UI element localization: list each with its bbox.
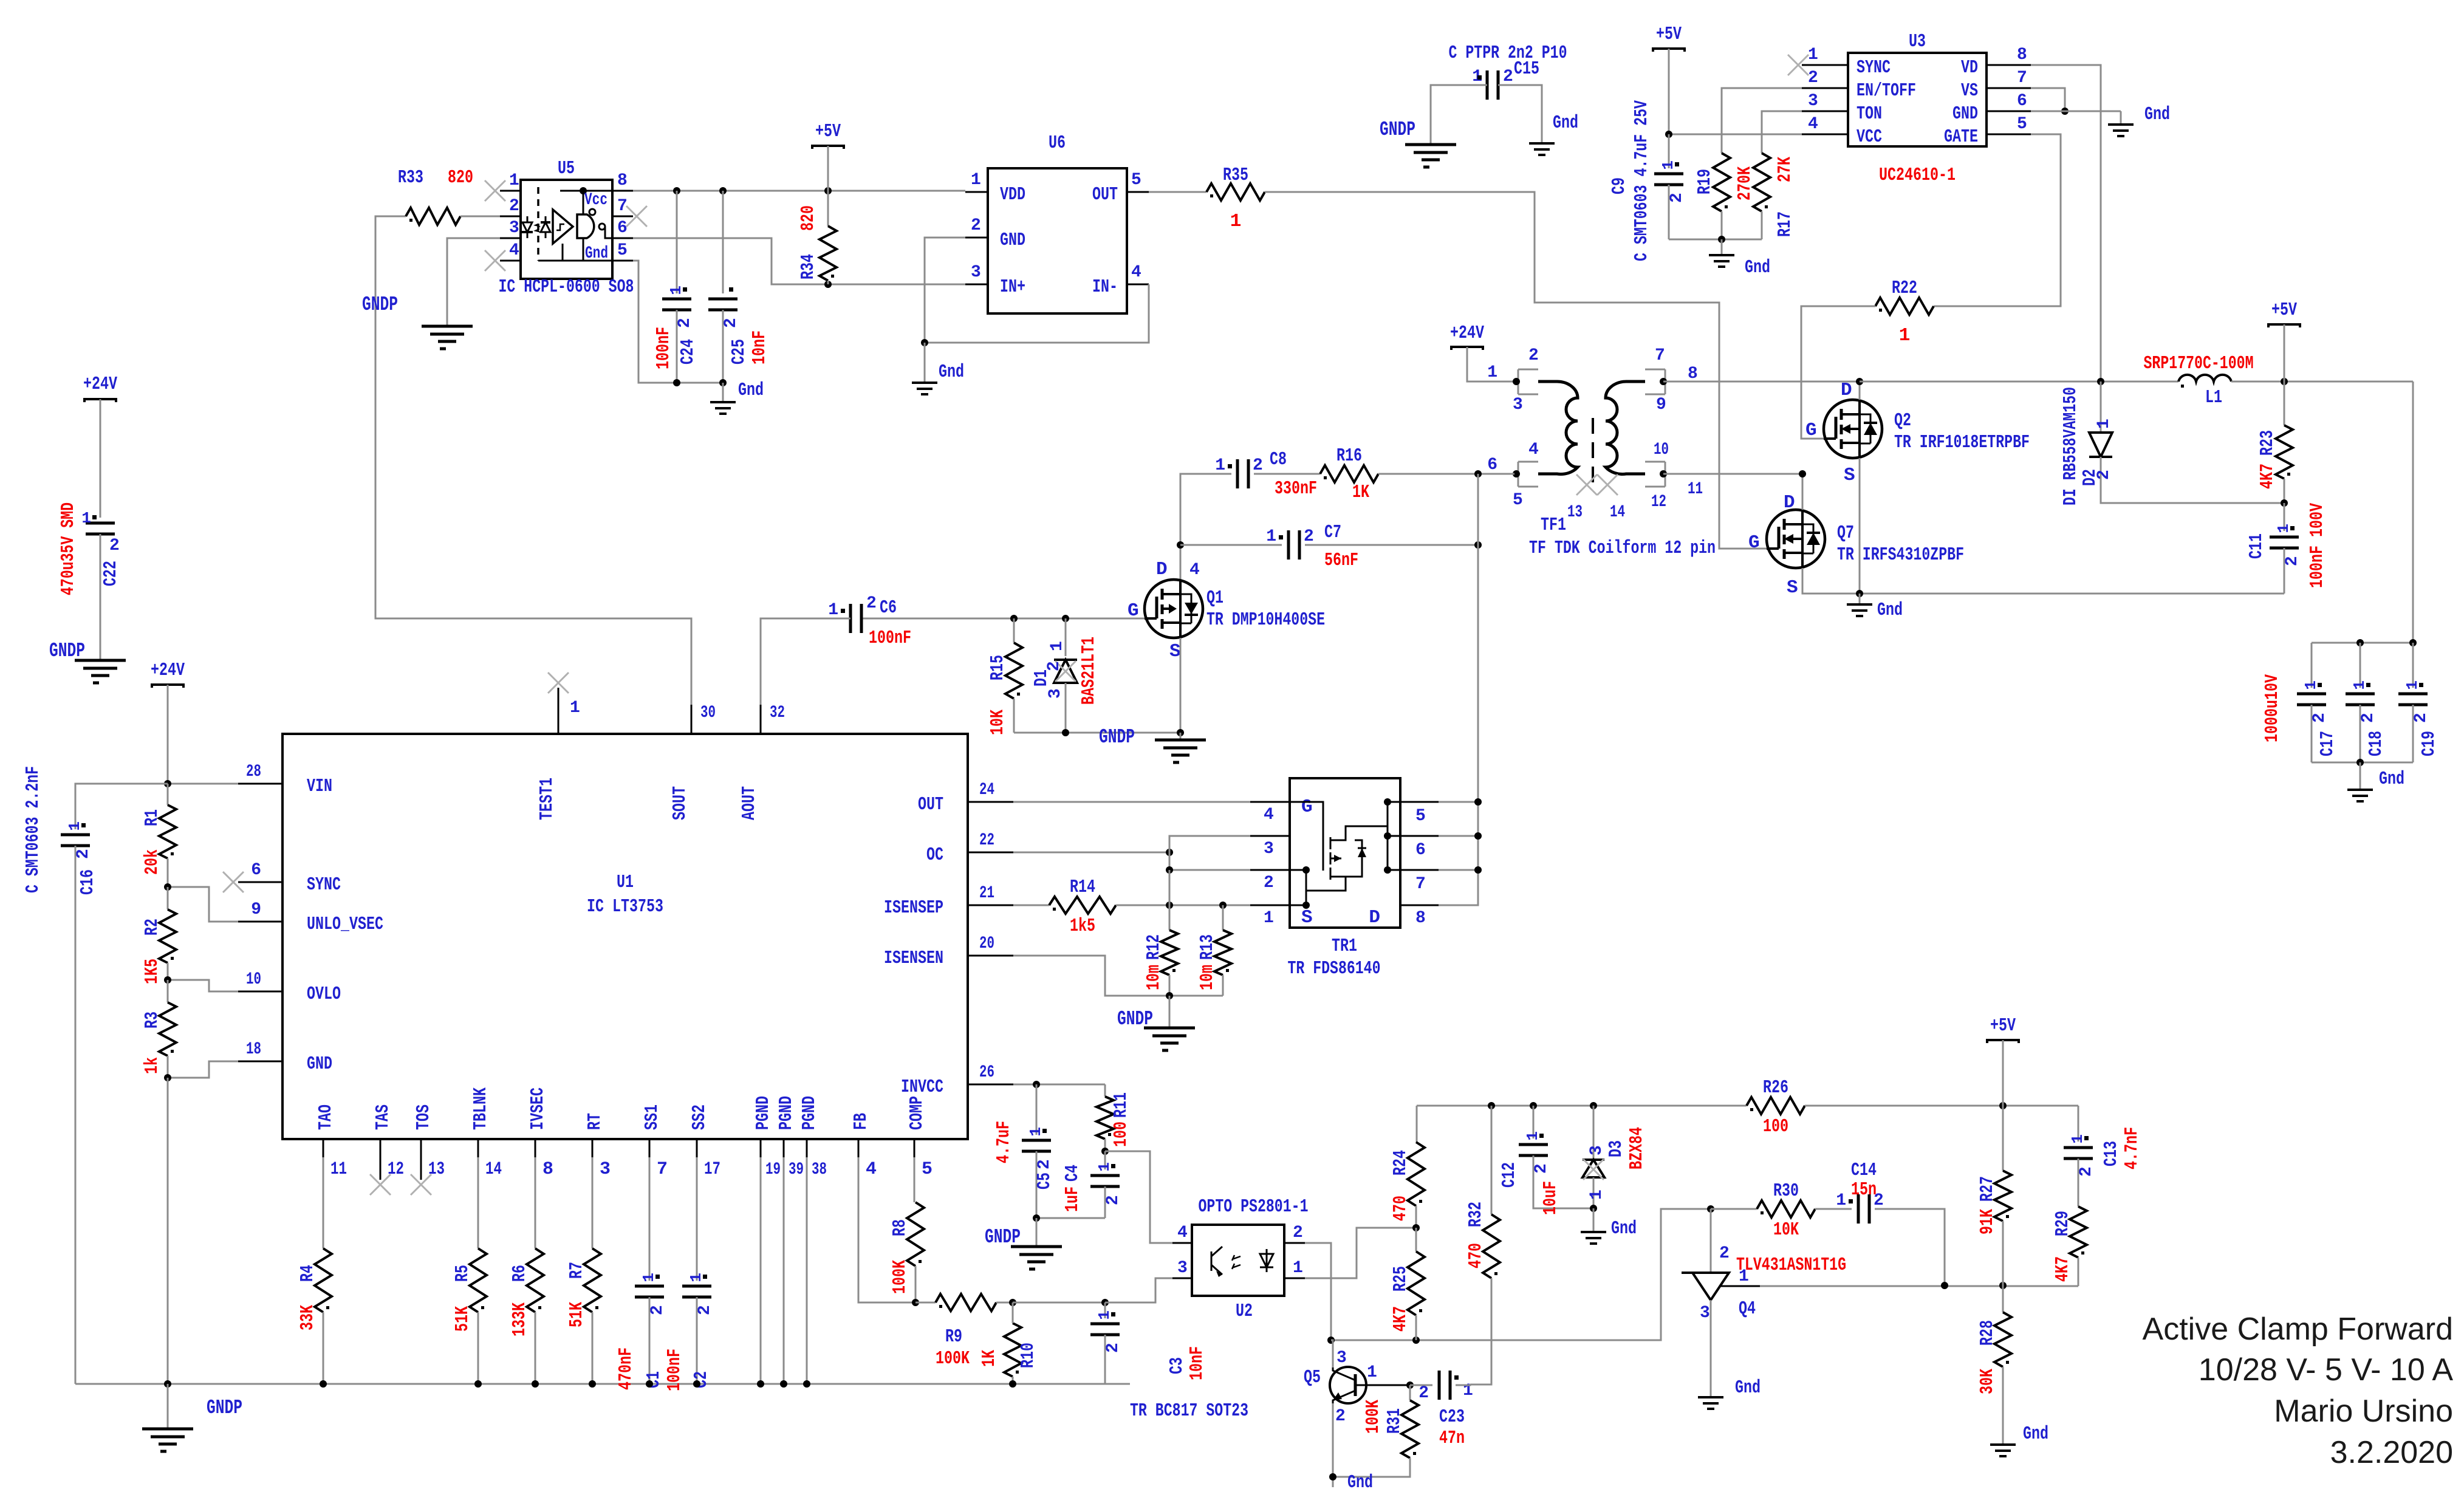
svg-text:1: 1	[2302, 680, 2320, 690]
svg-text:C11: C11	[2246, 533, 2267, 559]
node C7 TR1 vertical	[1474, 541, 1482, 549]
U1 pin SS2 (17)	[696, 1139, 698, 1157]
wire C15 pin1 to GNDP	[1431, 85, 1487, 145]
svg-text:+5V: +5V	[2271, 300, 2297, 321]
svg-text:1: 1	[1487, 363, 1497, 382]
svg-text:7: 7	[1415, 875, 1426, 894]
svg-text:D: D	[1156, 559, 1168, 580]
svg-text:3: 3	[1808, 92, 1818, 111]
svg-text:100nF: 100nF	[869, 628, 911, 649]
svg-text:4: 4	[1264, 806, 1274, 824]
node D3 top	[1590, 1102, 1597, 1109]
svg-text:4: 4	[1528, 440, 1539, 459]
U1 pin TBLNK (14)	[477, 1139, 479, 1157]
wire U6 GND loop to IN-	[925, 238, 1149, 343]
wire TR1 pin5 to node	[1439, 801, 1478, 803]
TR1 pin 5 stub	[1400, 801, 1439, 803]
svg-text:2: 2	[676, 318, 694, 328]
svg-text:OVLO: OVLO	[307, 984, 341, 1005]
svg-text:R10: R10	[1018, 1343, 1039, 1368]
svg-text:2: 2	[971, 216, 981, 235]
svg-text:Q1: Q1	[1206, 587, 1223, 609]
wire Q7 drain	[1802, 474, 1804, 510]
node D1 top	[1062, 615, 1069, 622]
svg-text:1: 1	[1524, 1131, 1542, 1141]
wire to U2 pin3	[1105, 1278, 1172, 1302]
svg-text:C12: C12	[1499, 1162, 1520, 1188]
svg-text:19: 19	[765, 1160, 781, 1179]
svg-text:1: 1	[1230, 211, 1242, 232]
svg-text:U5: U5	[558, 158, 575, 179]
svg-text:4.7uF: 4.7uF	[993, 1121, 1015, 1163]
svg-text:8: 8	[617, 171, 628, 190]
svg-text:PGND: PGND	[799, 1096, 820, 1130]
U5 pin 7 stub	[612, 216, 633, 217]
U3 pin 1 stub	[1802, 64, 1848, 66]
svg-text:32: 32	[770, 703, 785, 722]
svg-text:R27: R27	[1977, 1176, 1998, 1202]
svg-text:R12: R12	[1143, 934, 1165, 960]
transistor Q1 symbol	[1145, 580, 1203, 638]
svg-text:2: 2	[509, 197, 519, 216]
svg-text:R25: R25	[1390, 1266, 1411, 1292]
wire +5V to VCC	[1669, 49, 1802, 134]
svg-text:2: 2	[722, 318, 741, 328]
wire PGND 19 down	[760, 1157, 762, 1384]
svg-text:4: 4	[509, 241, 519, 260]
svg-text:R1: R1	[142, 809, 163, 826]
opto U2 box	[1192, 1225, 1284, 1296]
svg-text:TF TDK Coilform 12 pin: TF TDK Coilform 12 pin	[1529, 538, 1716, 559]
U6 pin 2 stub	[965, 237, 988, 239]
svg-text:COMP: COMP	[906, 1096, 928, 1130]
svg-text:11: 11	[1688, 480, 1703, 499]
svg-text:Gnd: Gnd	[2023, 1423, 2048, 1445]
node fb R28	[1999, 1282, 2007, 1289]
resistor R33	[403, 216, 406, 217]
svg-text:100nF: 100nF	[653, 327, 674, 369]
diode D1	[1065, 618, 1067, 656]
svg-text:+5V: +5V	[1656, 24, 1682, 45]
svg-text:GNDP: GNDP	[985, 1226, 1021, 1248]
node caps bottom	[2356, 759, 2364, 766]
wire R30 node	[1711, 1208, 1757, 1210]
svg-text:10m: 10m	[1143, 965, 1165, 990]
capacitor C19	[2412, 643, 2414, 688]
svg-text:2: 2	[696, 1305, 714, 1315]
resistor R25	[1415, 1228, 1417, 1251]
wire Q4 ref node	[1760, 1285, 2078, 1287]
resistor R15	[1013, 618, 1015, 643]
svg-text:4.7nF: 4.7nF	[2121, 1127, 2143, 1169]
svg-text:2: 2	[2359, 713, 2378, 723]
wire TR1 pin6 to node	[1439, 835, 1478, 837]
resistor R30	[1757, 1200, 1815, 1217]
svg-text:TR IRF1018ETRPBF: TR IRF1018ETRPBF	[1894, 432, 2030, 453]
svg-text:2: 2	[1808, 69, 1818, 87]
node PGND39 bus	[780, 1380, 787, 1388]
U1 pin OVLO	[238, 991, 282, 993]
svg-text:20k: 20k	[142, 849, 163, 875]
power +5V (R26)	[1986, 1040, 2020, 1043]
svg-text:C13: C13	[2101, 1141, 2122, 1166]
svg-text:C14: C14	[1851, 1160, 1877, 1181]
svg-text:GNDP: GNDP	[49, 640, 85, 662]
ground Gnd (U6)	[924, 343, 926, 383]
U1 pin SYNC	[238, 881, 282, 883]
node caps top C19	[2409, 639, 2417, 646]
svg-text:3: 3	[1587, 1145, 1606, 1155]
U1 pin OC	[968, 852, 1013, 854]
resistor R10	[1004, 1323, 1021, 1377]
svg-text:OUT: OUT	[918, 794, 943, 815]
svg-text:7: 7	[2017, 69, 2027, 87]
svg-text:C18: C18	[2366, 731, 2387, 756]
svg-text:C8: C8	[1270, 449, 1287, 470]
svg-text:Gnd: Gnd	[2379, 768, 2404, 790]
resistor R26	[1747, 1097, 1805, 1114]
TR1 pin 7 stub	[1400, 869, 1439, 871]
svg-text:R4: R4	[297, 1265, 318, 1282]
svg-text:GNDP: GNDP	[362, 293, 398, 316]
svg-text:C25: C25	[728, 339, 750, 365]
svg-text:TON: TON	[1857, 103, 1882, 125]
svg-text:47n: 47n	[1439, 1428, 1465, 1449]
svg-text:91K: 91K	[1977, 1209, 1998, 1234]
svg-text:4: 4	[1189, 561, 1200, 580]
svg-text:1: 1	[2350, 680, 2369, 690]
svg-text:C7: C7	[1324, 522, 1341, 543]
svg-text:TR BC817 SOT23: TR BC817 SOT23	[1130, 1400, 1248, 1422]
svg-text:1: 1	[509, 171, 519, 190]
svg-text:30: 30	[700, 703, 716, 722]
U5 pin 3 stub	[500, 238, 521, 239]
U2 pin 1 stub	[1284, 1278, 1305, 1279]
capacitor C2	[682, 1285, 711, 1288]
resistor R16	[1320, 465, 1378, 482]
svg-text:G: G	[1301, 796, 1313, 818]
resistor R4	[315, 1248, 332, 1312]
svg-text:U1: U1	[617, 872, 634, 893]
TF1 primary winding	[1538, 382, 1578, 474]
svg-text:U6: U6	[1049, 132, 1066, 154]
TR1 pin 1 stub	[1250, 905, 1290, 906]
wire +5V to R34	[827, 146, 829, 226]
svg-text:5: 5	[922, 1159, 933, 1180]
node +5V output	[2281, 378, 2288, 385]
ground GNDP (C15)	[1405, 145, 1456, 167]
svg-text:12: 12	[1651, 493, 1666, 512]
node C1 bus	[646, 1380, 653, 1388]
svg-text:U2: U2	[1236, 1301, 1253, 1322]
svg-text:SRP1770C-100M: SRP1770C-100M	[2144, 353, 2254, 374]
svg-text:R8: R8	[889, 1219, 911, 1236]
wire R22 to Q2 gate	[1801, 306, 1865, 439]
svg-text:17: 17	[704, 1159, 720, 1180]
svg-text:R28: R28	[1977, 1320, 1998, 1346]
svg-text:C15: C15	[1514, 58, 1539, 80]
node R32 top	[1488, 1102, 1495, 1109]
transistor Q5	[1330, 1367, 1366, 1403]
wire SS1 to C1	[649, 1157, 651, 1281]
svg-text:6: 6	[1415, 841, 1426, 860]
wire C5 C4 gnd rail	[1036, 1217, 1105, 1219]
svg-text:C6: C6	[880, 597, 897, 618]
svg-text:D: D	[1841, 380, 1852, 401]
capacitor C14	[1857, 1194, 1860, 1224]
node C5 gnd	[1033, 1214, 1040, 1222]
wire U5 pin3 to GNDP	[447, 238, 500, 326]
controller U3 box	[1848, 53, 1987, 146]
svg-text:14: 14	[1610, 503, 1625, 522]
TF1 secondary winding	[1606, 382, 1645, 474]
svg-text:GND: GND	[307, 1053, 332, 1075]
node R23 bottom	[2281, 499, 2288, 507]
svg-text:R16: R16	[1336, 445, 1362, 467]
wire Q2 source	[1859, 458, 1861, 594]
node U6 gnd	[921, 339, 928, 346]
shunt ref Q4	[1682, 1272, 1729, 1274]
svg-text:7: 7	[617, 197, 628, 216]
svg-text:+24V: +24V	[151, 660, 185, 681]
wire INVCC to R11	[1013, 1084, 1105, 1086]
capacitor C12	[1533, 1106, 1535, 1138]
svg-text:10K: 10K	[1773, 1219, 1799, 1241]
svg-text:TR1: TR1	[1332, 936, 1357, 957]
U3 pin 8 stub	[1987, 64, 2031, 66]
svg-text:1: 1	[1293, 1259, 1303, 1278]
wire U5 pin6 to U6 IN+	[633, 238, 965, 284]
wire +24V to TF1 pin1	[1467, 347, 1514, 382]
capacitor C24	[676, 191, 678, 293]
resistor R8	[907, 1202, 924, 1266]
svg-text:TBLNK: TBLNK	[470, 1087, 491, 1130]
U1 pin RT (3)	[592, 1139, 594, 1157]
svg-text:R11: R11	[1111, 1092, 1132, 1118]
svg-text:9: 9	[1656, 395, 1666, 414]
node R1 top	[164, 780, 171, 787]
svg-text:SS2: SS2	[689, 1104, 710, 1130]
U1 pin FB (4)	[858, 1139, 860, 1157]
capacitor C22	[86, 522, 115, 525]
svg-text:3: 3	[1700, 1304, 1710, 1323]
svg-text:Q4: Q4	[1739, 1298, 1756, 1320]
svg-text:20: 20	[979, 934, 994, 953]
node R6 bus	[532, 1380, 539, 1388]
svg-text:1: 1	[1659, 160, 1677, 170]
U1 pin PGND (38)	[806, 1139, 808, 1157]
svg-text:OPTO PS2801-1: OPTO PS2801-1	[1199, 1196, 1309, 1217]
svg-text:39: 39	[789, 1160, 804, 1179]
svg-text:5: 5	[1131, 171, 1141, 190]
ground GNDP (bus)	[167, 1384, 169, 1429]
svg-text:1: 1	[1808, 46, 1818, 64]
TR1 internal source chain	[1290, 870, 1306, 905]
svg-text:R3: R3	[142, 1011, 163, 1029]
svg-text:3: 3	[1264, 840, 1274, 858]
svg-text:8: 8	[2017, 46, 2027, 64]
U6 pin 4 stub	[1127, 284, 1149, 286]
node R34 top	[824, 187, 832, 194]
svg-text:U3: U3	[1909, 31, 1926, 52]
svg-text:2: 2	[1335, 1407, 1346, 1426]
power +5V (R34)	[811, 146, 845, 149]
opto U5 box	[521, 180, 612, 279]
svg-text:1: 1	[971, 171, 981, 190]
svg-text:4K7: 4K7	[2257, 464, 2278, 489]
svg-text:OUT: OUT	[1092, 184, 1118, 205]
svg-text:R35: R35	[1223, 165, 1248, 186]
svg-text:1: 1	[2095, 419, 2113, 429]
U2 pin 4 stub	[1172, 1242, 1192, 1244]
ground Gnd (Q4)	[1698, 1397, 1723, 1409]
wire R10 node right	[1013, 1302, 1105, 1304]
svg-text:Vcc: Vcc	[584, 191, 607, 210]
U3 pin 7 stub	[1987, 87, 2031, 89]
node OC junction	[1166, 849, 1173, 856]
svg-text:27K: 27K	[1774, 157, 1796, 182]
node Q2 source gnd	[1856, 590, 1863, 597]
wire chain down to R12	[1169, 870, 1171, 930]
svg-text:2: 2	[648, 1305, 667, 1315]
svg-text:1: 1	[2274, 524, 2293, 533]
svg-text:Gnd: Gnd	[2144, 104, 2170, 125]
ground Gnd (Q2 Q7 source)	[1859, 594, 1861, 604]
U1 pin UNLO_VSEC	[238, 921, 282, 923]
svg-text:8: 8	[1415, 909, 1426, 928]
svg-text:7: 7	[1655, 346, 1665, 365]
U1 pin ISENSEN	[968, 955, 1013, 957]
U5 internal dashed barrier	[537, 187, 539, 261]
svg-text:3: 3	[1046, 688, 1065, 699]
resistor R1	[167, 784, 169, 805]
ground Gnd (C12 D3)	[1593, 1208, 1595, 1232]
node VS GND	[2061, 108, 2069, 115]
svg-text:1k: 1k	[142, 1057, 163, 1074]
wire C7 to TR1 node	[1305, 544, 1478, 546]
wire GATE to R22	[1934, 134, 2061, 306]
transistor Q7	[1767, 510, 1825, 568]
svg-text:S: S	[1787, 577, 1798, 598]
svg-text:2: 2	[1719, 1244, 1730, 1263]
svg-text:4: 4	[1177, 1224, 1188, 1242]
wire caps bottom rail	[2312, 762, 2413, 764]
svg-text:51K: 51K	[566, 1302, 587, 1327]
svg-text:C PTPR 2n2 P10: C PTPR 2n2 P10	[1449, 43, 1567, 64]
U1 pin INVCC	[968, 1084, 1013, 1086]
svg-text:3: 3	[971, 263, 981, 282]
svg-text:Q2: Q2	[1894, 410, 1911, 431]
svg-text:Gnd: Gnd	[738, 380, 764, 401]
wire R8 to R9	[915, 1302, 936, 1304]
svg-text:D: D	[1369, 907, 1380, 928]
svg-text:+5V: +5V	[815, 121, 841, 142]
ground Gnd (R28)	[1990, 1445, 2016, 1456]
svg-text:ISENSEP: ISENSEP	[884, 897, 943, 919]
svg-text:3.2.2020: 3.2.2020	[2330, 1435, 2453, 1470]
svg-text:R23: R23	[2257, 430, 2278, 456]
node C5 top	[1033, 1081, 1040, 1088]
wire pin11 to Q7 drain	[1663, 473, 1802, 475]
wire +5V rail to C13	[2078, 1106, 2079, 1142]
svg-text:+5V: +5V	[1990, 1015, 2016, 1036]
svg-text:TR DMP10H400SE: TR DMP10H400SE	[1206, 609, 1325, 631]
wire C16 branch	[75, 784, 168, 829]
svg-text:820: 820	[798, 205, 819, 231]
power +24V (top left)	[83, 399, 117, 402]
svg-text:3: 3	[509, 219, 519, 238]
TF1 pin bracket 10-11-12	[1665, 462, 1666, 487]
svg-text:100nF 100V: 100nF 100V	[2307, 503, 2328, 588]
wire C23 to R32	[1456, 1385, 1470, 1385]
svg-text:IN-: IN-	[1092, 276, 1118, 298]
svg-text:C3: C3	[1166, 1357, 1188, 1374]
node C24 bottom	[673, 379, 680, 386]
node sense R13	[1219, 902, 1227, 909]
wire GNDP bus	[75, 1383, 1130, 1385]
svg-text:2: 2	[866, 594, 877, 613]
wire C15 pin2 to Gnd	[1498, 85, 1542, 143]
controller U1 box	[282, 734, 968, 1139]
wire Q5 emitter to gnd	[1332, 1403, 1334, 1487]
capacitor C11	[2284, 503, 2285, 531]
svg-text:38: 38	[812, 1160, 827, 1179]
node pin2 junction	[1166, 866, 1173, 874]
svg-text:+24V: +24V	[83, 374, 117, 395]
svg-text:2: 2	[1304, 527, 1314, 546]
svg-text:R17: R17	[1774, 211, 1796, 237]
wire U5 pin5 down	[633, 261, 677, 383]
svg-text:VCC: VCC	[1857, 126, 1882, 148]
U2 internal diode	[1266, 1249, 1268, 1272]
wire TR1 pin7 to node	[1439, 869, 1478, 871]
U5 internal buffer	[553, 210, 573, 244]
wire PGND 39 down	[783, 1157, 785, 1384]
svg-text:S: S	[1169, 641, 1181, 662]
svg-text:GND: GND	[1000, 230, 1025, 251]
U2 pin 2 stub	[1284, 1242, 1305, 1244]
svg-text:VD: VD	[1961, 57, 1978, 78]
TF1 pin bracket 7-8-9	[1665, 369, 1666, 394]
svg-text:7: 7	[657, 1159, 668, 1180]
svg-text:2: 2	[1293, 1224, 1303, 1242]
svg-text:C19: C19	[2418, 731, 2440, 756]
svg-text:2: 2	[1264, 874, 1274, 892]
U2 internal arrows	[1232, 1255, 1241, 1269]
U1 pin PGND (39)	[783, 1139, 785, 1157]
wire Q4 cathode	[1710, 1209, 1712, 1273]
svg-text:6: 6	[2017, 92, 2027, 111]
wire Q7 source to rail	[1802, 568, 2284, 594]
node C25 top	[719, 187, 727, 194]
capacitor C4	[1104, 1151, 1106, 1169]
node TF1 pin8	[1660, 378, 1667, 385]
wire GND pin to Gnd	[2031, 111, 2121, 112]
svg-text:TAS: TAS	[372, 1104, 394, 1130]
TR1 pin 3 stub	[1250, 835, 1290, 837]
svg-text:1: 1	[1367, 1363, 1377, 1382]
svg-text:10uF: 10uF	[1540, 1181, 1561, 1215]
svg-text:2: 2	[1419, 1384, 1429, 1403]
node R10 top	[1009, 1299, 1016, 1306]
svg-text:1: 1	[667, 286, 685, 295]
wire chain to TR1 pin2	[1169, 852, 1290, 870]
resistor R12	[1161, 930, 1178, 975]
ground Gnd (C24 C25)	[722, 383, 724, 402]
U2 internal phototransistor	[1211, 1251, 1213, 1271]
svg-text:R19: R19	[1694, 169, 1716, 194]
svg-text:1: 1	[1095, 1162, 1114, 1172]
